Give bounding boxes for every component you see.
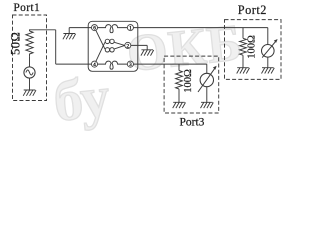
Port3 dashed box	[164, 56, 219, 113]
resistor 100ohm (Port2) zigzag	[240, 38, 247, 55]
meter (Port2) circle	[262, 45, 275, 58]
svg-text:4: 4	[93, 62, 96, 68]
wire pin 1 to Port2	[133, 27, 267, 29]
ground (pin 2 net)	[141, 45, 154, 55]
svg-text:Port3: Port3	[180, 117, 205, 129]
pin 2	[125, 42, 131, 49]
ground (Port3 meter)	[201, 102, 214, 108]
svg-text:3: 3	[129, 62, 132, 68]
ground (Port2 resistor)	[237, 68, 250, 74]
wire pin 3 to Port3	[133, 63, 206, 65]
meter (Port3) arrow	[198, 67, 216, 92]
wire upper coil to pin 2	[114, 42, 124, 45]
wire vertical to pin4 row	[55, 30, 57, 64]
svg-text:Port2: Port2	[238, 3, 267, 17]
transformer middle winding lower coil	[105, 48, 109, 52]
svg-text:100Ω: 100Ω	[247, 35, 258, 59]
resistor 50ohm zigzag	[26, 31, 33, 56]
resistor to ground lead (Port2)	[242, 55, 244, 67]
wire ground to pin 6	[69, 27, 91, 29]
ground (Port3 resistor)	[173, 102, 186, 108]
pin 6	[91, 25, 97, 32]
resistor 100ohm (Port3) zigzag	[176, 71, 183, 90]
wire resistor to source	[29, 56, 31, 67]
wire source to ground	[29, 78, 31, 90]
AC source circle	[24, 67, 35, 78]
svg-text:6: 6	[93, 26, 96, 32]
svg-text:50Ω: 50Ω	[9, 32, 23, 55]
transformer bottom winding (pins 4-3)	[98, 61, 128, 69]
svg-text:Port1: Port1	[13, 2, 40, 14]
AC source sine	[26, 70, 33, 75]
watermark	[47, 14, 250, 134]
pin 1	[127, 25, 133, 32]
svg-text:100Ω: 100Ω	[183, 69, 194, 93]
resistor 100ohm (Port3) lead	[178, 64, 180, 70]
pin 4	[91, 61, 97, 68]
svg-text:1: 1	[129, 26, 132, 32]
wire pin 2 stub to ground	[131, 44, 147, 46]
meter (Port3) leads	[206, 64, 208, 102]
Port1 dashed box	[13, 15, 47, 101]
resistor to ground lead (Port3)	[178, 89, 180, 102]
wire lower coil to pin 2	[114, 45, 124, 49]
meter (Port2) leads	[267, 28, 269, 68]
wire pin6 diagonal to lower coil	[96, 30, 105, 49]
transformer package outline	[88, 21, 138, 71]
svg-text:бу: бу	[50, 63, 112, 133]
wire pin4 diagonal to upper coil	[96, 42, 105, 61]
pin 3	[127, 61, 133, 68]
Port2 dashed box	[225, 20, 282, 80]
ground (Port1)	[23, 90, 36, 96]
meter (Port3) circle	[200, 73, 213, 86]
transformer top winding (pins 6-1)	[98, 25, 128, 33]
ground (pin 6 net)	[63, 28, 76, 40]
transformer middle winding upper coil	[105, 39, 109, 43]
wire resistor top rail to corner	[30, 30, 56, 31]
ground (Port2 meter)	[262, 68, 275, 74]
resistor 100ohm (Port2) lead	[242, 28, 244, 39]
wire to pin 4	[56, 63, 92, 65]
svg-text:2: 2	[127, 43, 130, 49]
meter (Port2) arrow	[262, 40, 277, 58]
